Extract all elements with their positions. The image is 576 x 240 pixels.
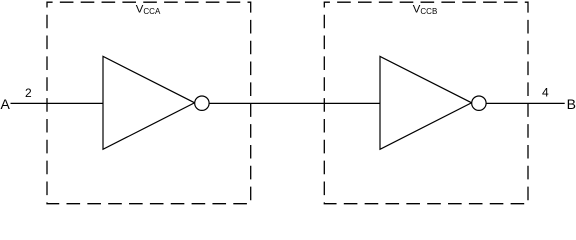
supply domain box VCCA (dashed) bbox=[47, 2, 251, 204]
supply domain box VCCB (dashed) bbox=[324, 2, 528, 204]
wire: A input bbox=[11, 102, 104, 104]
inverter U2 triangle bbox=[380, 56, 472, 149]
inverter U2 inversion bubble bbox=[472, 96, 486, 110]
wire: U1 output to U2 input bbox=[209, 102, 380, 104]
svg-text:A: A bbox=[1, 96, 11, 112]
inverter U1 inversion bubble bbox=[195, 96, 209, 110]
wire: U2 output bbox=[486, 102, 565, 104]
svg-text:4: 4 bbox=[542, 85, 549, 99]
svg-text:B: B bbox=[567, 96, 576, 112]
inverter U1 triangle bbox=[103, 56, 195, 149]
svg-text:2: 2 bbox=[25, 86, 32, 100]
